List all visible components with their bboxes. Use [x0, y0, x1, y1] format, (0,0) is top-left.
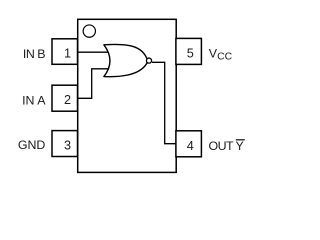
overline on Y: [236, 139, 245, 141]
pin 3 box: [52, 131, 78, 157]
pin 2 box: [52, 85, 78, 111]
wire gate output to pin 4: [152, 62, 176, 143]
wire pin2 to gate input A: [78, 69, 109, 99]
svg-text:OUT Y: OUT Y: [209, 139, 244, 153]
pin 4 box: [176, 131, 202, 157]
svg-text:IN A: IN A: [22, 93, 46, 107]
svg-text:3: 3: [64, 139, 71, 153]
NOR output bubble: [146, 58, 151, 63]
svg-text:5: 5: [187, 47, 194, 61]
NOR gate U1A: [104, 44, 147, 76]
package body U1: [78, 19, 177, 172]
svg-text:4: 4: [187, 139, 194, 153]
pin 5 box: [176, 38, 202, 64]
svg-text:2: 2: [64, 93, 71, 107]
pin-1 indicator circle: [83, 25, 95, 37]
svg-text:GND: GND: [18, 138, 46, 152]
svg-text:1: 1: [64, 47, 71, 61]
svg-text:VCC: VCC: [209, 46, 233, 62]
svg-text:IN B: IN B: [23, 47, 45, 61]
wire pin1 to gate input B: [78, 51, 109, 53]
pin 1 box: [52, 39, 78, 65]
